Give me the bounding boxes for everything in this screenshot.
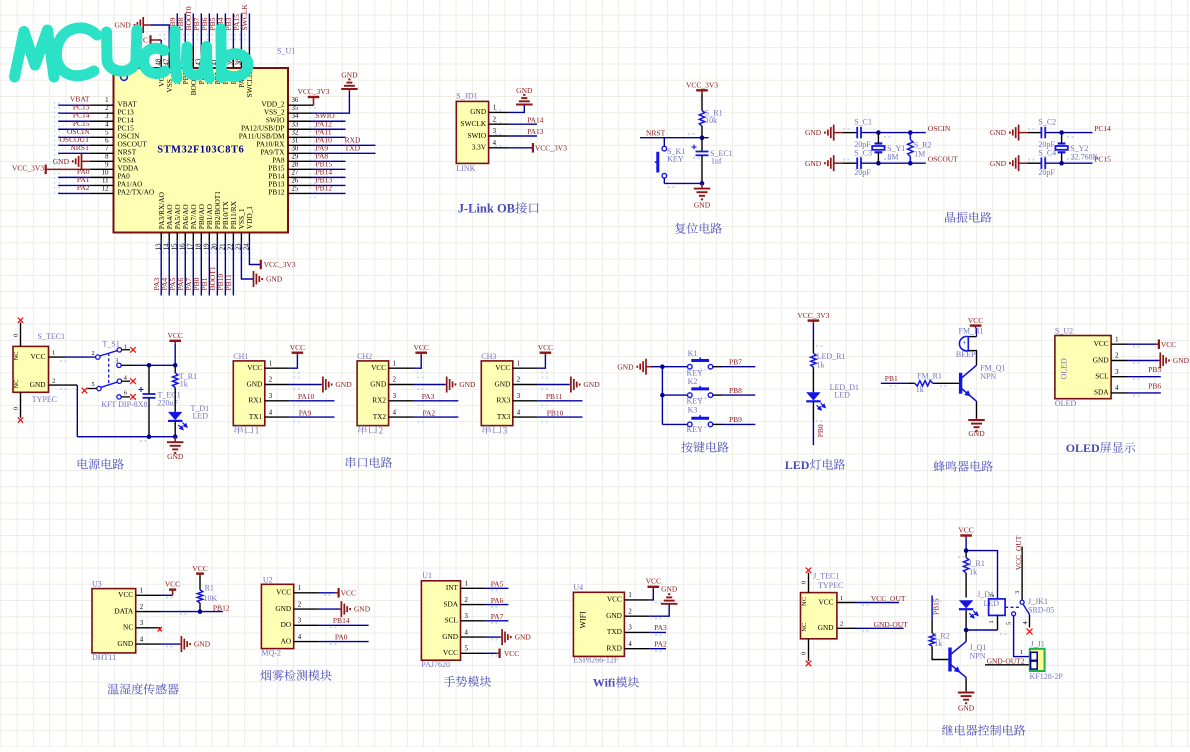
- svg-text:30: 30: [292, 145, 299, 152]
- svg-text:PAJ7620: PAJ7620: [421, 660, 450, 669]
- wire net PA1 to U1 pin 11: [58, 175, 142, 189]
- svg-text:2: 2: [92, 350, 95, 357]
- connector JD1 J-Link: [456, 92, 509, 173]
- wire net OSCOUT to U1 pin 6: [58, 135, 147, 149]
- svg-text:3: 3: [115, 358, 118, 365]
- svg-text:OLED: OLED: [1060, 358, 1069, 380]
- svg-text:FM_Q1: FM_Q1: [980, 363, 1005, 372]
- svg-text:1: 1: [298, 585, 301, 592]
- wire net VCC_OUT: [856, 594, 906, 603]
- wire net PA7 to U1 pin 17: [184, 204, 198, 295]
- power VCC_3V3 at JD1 pin 4: [509, 143, 567, 153]
- ground buzzer: [968, 418, 985, 438]
- capacitor S_EC1 1uf: [692, 138, 733, 184]
- svg-text:VCC_3V3: VCC_3V3: [535, 143, 567, 152]
- capacitor S_C3 20pF: [854, 149, 872, 177]
- svg-text:34: 34: [292, 113, 299, 120]
- wire net SWIO to U1 pin 34: [266, 111, 346, 124]
- svg-text:VCC_3V3: VCC_3V3: [686, 80, 718, 89]
- svg-text:STM32F103C8T6: STM32F103C8T6: [157, 144, 244, 155]
- svg-text:1k: 1k: [969, 567, 977, 576]
- svg-text:10k: 10k: [705, 116, 717, 125]
- svg-text:VCC: VCC: [443, 648, 458, 657]
- ground at ESP pin2: [649, 584, 678, 616]
- svg-text:0: 0: [801, 581, 808, 584]
- ground at CH3 pin2: [538, 377, 601, 393]
- svg-text:K1: K1: [688, 349, 698, 358]
- svg-text:20pF: 20pF: [1038, 140, 1055, 149]
- svg-text:TX3: TX3: [497, 412, 511, 421]
- node NRST junction: [700, 135, 705, 140]
- wire net PA11 to U1 pin 32: [239, 127, 346, 140]
- svg-text:28: 28: [292, 161, 299, 168]
- wire net OSCIN to U1 pin 5: [58, 127, 140, 141]
- svg-text:GND: GND: [117, 639, 133, 648]
- svg-text:2: 2: [298, 601, 302, 608]
- svg-text:2: 2: [105, 105, 109, 112]
- wire net VCC_OUT relay contact 3: [1014, 535, 1023, 600]
- svg-text:5: 5: [92, 381, 95, 388]
- svg-text:3: 3: [628, 625, 632, 632]
- svg-text:3: 3: [1014, 591, 1021, 594]
- svg-text:GND: GND: [114, 21, 131, 30]
- svg-text:PB0: PB0: [816, 424, 825, 437]
- svg-text:ESP8266-12F: ESP8266-12F: [573, 656, 618, 665]
- wire net PA5 at PAJ pin1: [485, 580, 508, 589]
- svg-text:VCC: VCC: [118, 590, 133, 599]
- wire net PC14: [1045, 124, 1111, 133]
- svg-text:GND: GND: [516, 86, 533, 95]
- wire net PC13 to U1 pin 2: [58, 103, 134, 117]
- power VCC at OLED pin1: [1128, 339, 1176, 349]
- svg-text:SRD-05: SRD-05: [1028, 606, 1054, 615]
- svg-text:LED: LED: [193, 411, 209, 420]
- ground at U1 pin 35 VSS_2: [264, 71, 358, 117]
- svg-text:33: 33: [292, 121, 299, 128]
- svg-text:31: 31: [292, 137, 299, 144]
- svg-text:9: 9: [105, 161, 109, 168]
- wire net BOOT0 to U1 pin 44: [184, 6, 198, 95]
- resistor S_R1 10k: [699, 108, 722, 126]
- svg-text:1k: 1k: [180, 380, 188, 389]
- svg-text:VCC: VCC: [607, 595, 622, 604]
- wire net SWCLK to U1 pin 37: [240, 4, 254, 98]
- relay coil J_JK1 SRD-05: [988, 594, 1054, 630]
- wire bottom power: [174, 422, 176, 437]
- wire net NRST: [640, 129, 709, 138]
- wire emitter to ground: [976, 401, 978, 417]
- svg-text:GND: GND: [30, 380, 46, 389]
- svg-text:VCC: VCC: [341, 589, 356, 598]
- svg-text:GND: GND: [266, 275, 283, 284]
- wire net PB13 to U1 pin 26: [268, 175, 345, 188]
- wire net PB8: [713, 386, 756, 395]
- power VCC at PAJ pin5: [485, 649, 519, 659]
- svg-text:12: 12: [102, 185, 109, 192]
- svg-text:TYPEC: TYPEC: [32, 395, 57, 404]
- svg-text:2: 2: [628, 608, 632, 615]
- svg-text:4: 4: [298, 634, 302, 641]
- svg-text:GND: GND: [354, 605, 371, 614]
- svg-text:29: 29: [292, 153, 299, 160]
- svg-text:2: 2: [840, 621, 843, 628]
- power VCC_3V3 reset: [686, 80, 718, 93]
- wire LED to node: [965, 610, 967, 630]
- connector CH2 serial: [357, 352, 413, 435]
- power VCC at CH1 pin1: [290, 343, 305, 368]
- svg-text:4: 4: [628, 641, 632, 648]
- wire net OSCIN: [861, 124, 951, 133]
- wire net PB14 at MQ2 pin3: [319, 616, 369, 625]
- svg-text:KEY: KEY: [687, 397, 704, 406]
- wire net PB14 to U1 pin 27: [268, 167, 345, 180]
- svg-text:GND: GND: [1093, 355, 1109, 364]
- svg-text:1: 1: [493, 105, 496, 112]
- caption relay control circuit: [942, 725, 1025, 736]
- svg-text:5: 5: [1006, 622, 1013, 625]
- svg-text:4: 4: [105, 121, 109, 128]
- svg-text:3: 3: [493, 128, 497, 135]
- svg-text:3: 3: [105, 113, 109, 120]
- wire net PB0 to U1 pin 18: [192, 204, 206, 295]
- ground buttons: [617, 359, 662, 375]
- wire net PB10 at CH3 pin4: [538, 408, 583, 417]
- capacitor S_C1 20pF: [854, 118, 872, 149]
- svg-text:PA7: PA7: [491, 612, 504, 621]
- resistor FM_R1 1k: [908, 372, 959, 394]
- svg-text:PA13: PA13: [527, 127, 544, 136]
- svg-text:U3: U3: [92, 580, 102, 589]
- svg-text:PB12: PB12: [268, 188, 285, 197]
- svg-text:SWCLK: SWCLK: [240, 4, 249, 31]
- svg-text:LED: LED: [984, 599, 1000, 608]
- power VCC relay: [958, 526, 973, 551]
- svg-text:3: 3: [1115, 369, 1119, 376]
- svg-text:NC: NC: [801, 623, 808, 632]
- svg-text:VCC: VCC: [504, 649, 519, 658]
- wire net PA2 at CH2 pin4: [414, 408, 459, 417]
- ground at PAJ pin4: [485, 629, 531, 645]
- svg-text:VCC: VCC: [413, 343, 428, 352]
- svg-text:PA0: PA0: [335, 632, 348, 641]
- svg-text:32: 32: [292, 129, 299, 136]
- svg-text:S_TEC1: S_TEC1: [38, 332, 66, 341]
- wire net PA10 at CH1 pin3: [290, 392, 335, 401]
- svg-text:AO: AO: [281, 636, 292, 645]
- ground at CH1 pin2: [290, 377, 353, 393]
- buzzer FM_B1 BEEP: [956, 327, 984, 360]
- svg-text:S_C1: S_C1: [854, 118, 872, 127]
- crystal S_Y1 8M: [872, 133, 905, 164]
- caption gesture module: [444, 676, 491, 687]
- svg-text:Wifi: Wifi: [593, 676, 616, 690]
- svg-text:PB9: PB9: [729, 415, 742, 424]
- svg-text:20pF: 20pF: [1038, 168, 1055, 177]
- svg-text:VCC: VCC: [968, 316, 983, 325]
- svg-text:NC: NC: [123, 623, 133, 632]
- svg-text:GND: GND: [370, 379, 386, 388]
- caption button circuit: [681, 441, 728, 452]
- wire net GND-OUT2: [985, 656, 1030, 665]
- svg-text:PB5: PB5: [1148, 365, 1161, 374]
- svg-text:GND-OUT: GND-OUT: [874, 620, 909, 629]
- wire net PB0: [813, 402, 825, 445]
- wire net PB12 at U3 pin2: [161, 603, 230, 614]
- power VCC_3V3 at U1 pin 9 VDDA: [12, 161, 139, 174]
- svg-text:1: 1: [988, 620, 995, 623]
- svg-text:OLED: OLED: [1055, 399, 1077, 408]
- svg-text:1k: 1k: [916, 385, 924, 394]
- no-connect X bottom: [18, 417, 23, 422]
- wire net PC15: [1045, 155, 1111, 164]
- svg-text:27: 27: [292, 169, 299, 176]
- svg-text:GND: GND: [515, 633, 532, 642]
- svg-text:U2: U2: [263, 576, 273, 585]
- caption smoke detection module: [260, 670, 331, 681]
- svg-text:SWIO: SWIO: [467, 131, 486, 140]
- wire relay contact 5 to J1: [1006, 616, 1030, 657]
- wire net PB12 to U1 pin 25: [268, 183, 345, 196]
- svg-text:CH2: CH2: [357, 352, 372, 361]
- wire emitter to ground: [965, 678, 967, 692]
- svg-text:8M: 8M: [887, 153, 898, 162]
- svg-text:PA6: PA6: [491, 596, 504, 605]
- svg-text:NRST: NRST: [646, 129, 666, 138]
- svg-text:NPN: NPN: [980, 372, 996, 381]
- svg-text:SDA: SDA: [443, 599, 458, 608]
- wire net PB6 to U1 pin 42: [200, 13, 214, 84]
- svg-text:OLED: OLED: [1066, 441, 1100, 455]
- svg-text:4: 4: [465, 629, 469, 636]
- svg-text:VCC: VCC: [290, 343, 305, 352]
- svg-text:10K: 10K: [204, 594, 218, 603]
- svg-text:LED_R1: LED_R1: [817, 352, 846, 361]
- svg-text:KFT DIP-8X8: KFT DIP-8X8: [101, 400, 147, 409]
- wire net PA3 at ESP pin3: [649, 623, 667, 632]
- LED J_D1: [959, 590, 999, 618]
- svg-text:2: 2: [393, 377, 397, 384]
- svg-text:36: 36: [292, 97, 299, 104]
- svg-text:PC14: PC14: [1094, 124, 1111, 133]
- no-connect X top: [18, 318, 23, 323]
- svg-text:32.768K: 32.768K: [1071, 153, 1099, 162]
- svg-text:S_U1: S_U1: [277, 47, 295, 56]
- svg-text:4: 4: [269, 409, 273, 416]
- caption crystal circuit: [945, 212, 992, 223]
- wire net PA9 to U1 pin 30: [260, 143, 375, 156]
- connector U4 ESP8266-12F wifi: [573, 583, 649, 665]
- svg-text:GND: GND: [335, 380, 352, 389]
- connector S_TEC1 TYPEC: [13, 323, 78, 418]
- svg-text:TYPEC: TYPEC: [818, 581, 843, 590]
- connector U1 PAJ7620 gesture: [421, 571, 485, 669]
- power VCC at U1 pin 48: [133, 35, 166, 87]
- svg-text:PB8: PB8: [729, 386, 742, 395]
- svg-text:SWCLK: SWCLK: [461, 119, 487, 128]
- ground at OLED pin2: [1128, 353, 1190, 369]
- svg-text:VCC: VCC: [165, 580, 180, 589]
- svg-text:2: 2: [52, 378, 55, 385]
- svg-text:1: 1: [1020, 649, 1023, 656]
- power VCC_3V3 at U1 pin 36 VDD_2: [261, 87, 329, 108]
- wire net PC15 to U1 pin 4: [58, 119, 134, 133]
- svg-text:26: 26: [292, 177, 299, 184]
- svg-text:4: 4: [393, 409, 397, 416]
- svg-text:PA2: PA2: [77, 183, 90, 192]
- svg-text:GND: GND: [606, 611, 622, 620]
- logo MCUclub: [15, 28, 249, 78]
- svg-text:VCC: VCC: [371, 363, 386, 372]
- svg-text:VCC: VCC: [646, 576, 661, 585]
- connector J_J1 KF128-2P: [1030, 639, 1064, 680]
- svg-text:K3: K3: [688, 406, 698, 415]
- svg-text:NC: NC: [13, 351, 20, 360]
- ground at U1 pin 23 VSS_1: [236, 208, 283, 287]
- svg-text:LED: LED: [834, 390, 850, 399]
- svg-text:S_C2: S_C2: [1038, 118, 1056, 127]
- wire net PB5 to U1 pin 41: [208, 13, 222, 84]
- wire net PA13 at JD1 pin 3: [509, 127, 543, 136]
- connector J_TEC1 TYPEC: [801, 571, 857, 661]
- svg-text:35: 35: [292, 105, 299, 112]
- caption LED circuit: [785, 458, 845, 472]
- wire net PA6 to U1 pin 16: [176, 204, 190, 295]
- power VCC_3V3 at U1 pin 24 VDD_1: [244, 206, 296, 270]
- svg-text:5: 5: [105, 129, 109, 136]
- svg-text:VDD_1: VDD_1: [245, 206, 254, 229]
- svg-text:DHT11: DHT11: [92, 653, 116, 662]
- wire net PB6 at OLED pin4: [1128, 381, 1161, 393]
- svg-text:SCL: SCL: [445, 616, 459, 625]
- svg-text:DATA: DATA: [114, 606, 134, 615]
- transistor FM_Q1 NPN: [961, 363, 1006, 401]
- svg-text:PA9: PA9: [299, 408, 312, 417]
- svg-text:1: 1: [465, 581, 468, 588]
- svg-text:2: 2: [517, 377, 521, 384]
- svg-text:VCC_3V3: VCC_3V3: [297, 87, 329, 96]
- power VCC_3V3 LED: [797, 311, 829, 323]
- svg-text:4: 4: [493, 140, 497, 147]
- svg-text:10: 10: [102, 169, 109, 176]
- svg-text:PB11: PB11: [224, 274, 233, 291]
- caption buzzer circuit: [934, 461, 993, 472]
- svg-text:GND: GND: [470, 107, 486, 116]
- svg-text:CH1: CH1: [233, 352, 248, 361]
- power VCC at U3 pin1: [161, 580, 181, 596]
- svg-text:RX2: RX2: [372, 396, 386, 405]
- wire net PB8 to U1 pin 45: [176, 13, 190, 84]
- svg-text:VCC: VCC: [538, 343, 553, 352]
- caption temperature humidity sensor: [108, 683, 179, 694]
- ground relay: [958, 691, 975, 712]
- svg-text:3: 3: [465, 613, 469, 620]
- svg-text:11: 11: [102, 177, 109, 184]
- wire net PA6 at PAJ pin2: [485, 596, 508, 605]
- svg-text:GND: GND: [617, 362, 634, 371]
- ground: [990, 155, 1042, 171]
- svg-text:GND: GND: [459, 380, 476, 389]
- svg-text:PA3: PA3: [654, 623, 667, 632]
- svg-text:7: 7: [105, 145, 109, 152]
- svg-text:1: 1: [840, 595, 843, 602]
- svg-text:25: 25: [292, 185, 299, 192]
- wire net PA10 to U1 pin 31: [256, 135, 375, 148]
- wire net PB3 to U1 pin 39: [224, 13, 238, 84]
- wire: [812, 323, 814, 340]
- svg-text:VCC_3V3: VCC_3V3: [12, 164, 44, 173]
- LED LED_D1: [806, 383, 859, 410]
- ground at U1 pin 47 VSS_3: [114, 17, 174, 92]
- svg-text:KEY: KEY: [687, 425, 704, 434]
- wire net PA2 to U1 pin 12: [58, 183, 154, 197]
- svg-text:4: 4: [124, 374, 127, 381]
- connector CH3 serial: [481, 352, 537, 435]
- wire net PB15: [932, 596, 941, 621]
- svg-text:2: 2: [1115, 353, 1119, 360]
- ground at MQ2 pin2: [319, 601, 371, 617]
- wire net PB11 at CH3 pin3: [538, 392, 583, 401]
- svg-text:GND: GND: [958, 703, 975, 712]
- wire row3 to VCC line: [136, 364, 175, 366]
- svg-text:PA2: PA2: [423, 408, 436, 417]
- svg-text:FM_R1: FM_R1: [917, 372, 942, 381]
- svg-text:S_C4: S_C4: [1038, 149, 1056, 158]
- wire net NRST to U1 pin 7: [58, 143, 136, 157]
- svg-text:PA10: PA10: [298, 392, 315, 401]
- caption power circuit: [78, 458, 124, 469]
- svg-text:INT: INT: [446, 583, 459, 592]
- svg-text:6: 6: [105, 137, 109, 144]
- svg-text:0: 0: [13, 334, 20, 337]
- svg-text:GND-OUT2: GND-OUT2: [987, 656, 1025, 665]
- svg-text:GND: GND: [246, 379, 262, 388]
- svg-text:VCC_OUT: VCC_OUT: [871, 594, 906, 603]
- svg-text:VCC: VCC: [958, 526, 973, 535]
- svg-text:S_U2: S_U2: [1055, 327, 1073, 336]
- svg-text:U4: U4: [573, 583, 583, 592]
- resistor LED_R1 1k: [811, 352, 846, 370]
- svg-text:GND: GND: [990, 128, 1007, 137]
- push button K2 KEY: [660, 377, 713, 406]
- power VCC buzzer: [968, 316, 983, 337]
- svg-text:OSCOUT: OSCOUT: [928, 155, 958, 164]
- wire net PB7: [713, 358, 756, 367]
- svg-text:1: 1: [628, 592, 631, 599]
- svg-text:2: 2: [465, 597, 469, 604]
- svg-text:4: 4: [140, 636, 144, 643]
- wire net PA14 at JD1 pin 2: [509, 115, 543, 124]
- svg-text:NC: NC: [801, 597, 808, 606]
- ground at JD1 pin 1: [509, 86, 533, 112]
- ground power-circuit: [167, 437, 184, 462]
- wire net PA0 to U1 pin 10: [58, 167, 130, 181]
- op-amp U1 : STM32F103C8T6 MCU body: [114, 47, 296, 233]
- wire net PB10 to U1 pin 21: [216, 200, 230, 295]
- svg-text:2: 2: [989, 594, 996, 597]
- svg-text:3: 3: [503, 425, 508, 435]
- resistor S_R2 1M: [908, 130, 932, 165]
- svg-text:J_TEC1: J_TEC1: [813, 571, 839, 580]
- switch T_S1 KFT DIP-8X8: [82, 340, 148, 410]
- wire net PA15 to U1 pin 38: [232, 13, 246, 87]
- svg-text:GND: GND: [53, 157, 70, 166]
- svg-text:VCC: VCC: [30, 352, 45, 361]
- wire net PB5 at OLED pin3: [1128, 365, 1161, 377]
- caption wifi module: [593, 676, 639, 690]
- wire net PB4 to U1 pin 40: [216, 13, 230, 84]
- capacitor T_EC1 220uF: [139, 365, 181, 436]
- svg-text:PA14: PA14: [527, 115, 544, 124]
